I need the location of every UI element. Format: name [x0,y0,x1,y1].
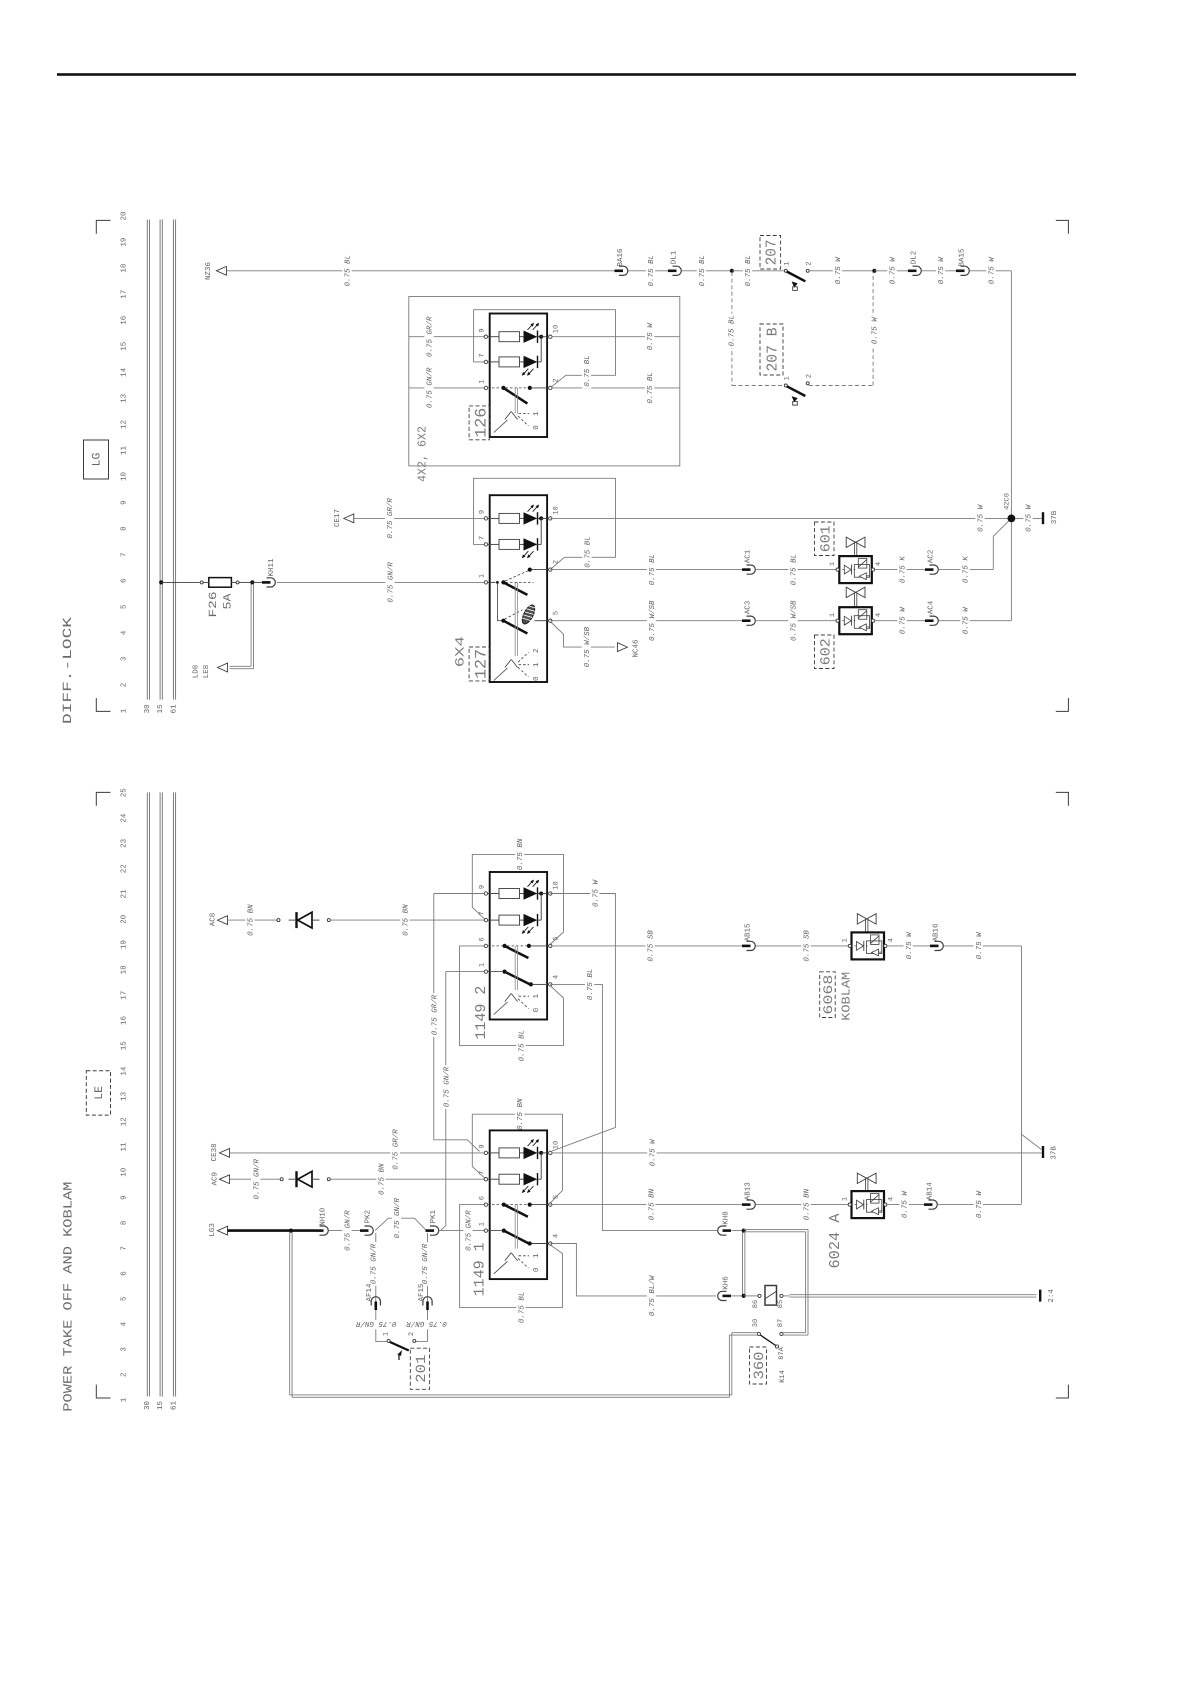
wire AC1 to valve 601 0.75 BL [756,569,837,571]
svg-text:201: 201 [414,1355,430,1383]
svg-text:21: 21 [119,889,128,899]
svg-text:PK2: PK2 [364,1210,373,1224]
svg-text:0.75 W: 0.75 W [905,931,914,960]
wire diode to 1149-1 pin7 0.75 BN [330,1178,486,1180]
block 1149-1 top loop pin7-pin5 0.75 BN [472,1114,562,1203]
switch 201 [387,1339,390,1342]
block 127 housing 6X4 [490,495,547,682]
svg-text:0.75 BN: 0.75 BN [648,1188,657,1220]
svg-text:0.75 BL: 0.75 BL [648,554,657,586]
svg-text:8: 8 [119,1221,128,1226]
svg-text:1: 1 [829,613,837,617]
wire DL1 to node 0.75 BL [682,270,732,272]
svg-text:9: 9 [478,1144,486,1148]
connector AC4 [925,619,934,622]
switch 207 B dashed variant [731,272,733,386]
svg-text:30: 30 [143,704,152,714]
riser diagonal to 37B [1022,1134,1042,1149]
block 126 dashed label box [469,406,489,440]
wire NH10 to PK2 0.75 GN/R [329,1230,361,1232]
svg-text:37B: 37B [1050,1146,1059,1160]
svg-text:61: 61 [169,704,178,714]
svg-text:0.75 BN: 0.75 BN [402,904,411,936]
svg-text:1: 1 [783,376,791,380]
svg-text:0.75 GR/R: 0.75 GR/R [426,316,435,357]
svg-text:0.75 GR/R: 0.75 GR/R [386,498,395,539]
wire 1149-2 pin4 0.75 BL drop [550,984,717,1230]
connector KH8 [723,1229,732,1232]
svg-text:0.75 W/SB: 0.75 W/SB [583,626,592,667]
svg-text:F26: F26 [208,592,220,618]
wire 1149-2 pin5 to AB15 0.75 SB [550,945,742,947]
svg-text:14: 14 [120,1066,128,1076]
svg-text:9: 9 [478,510,486,514]
svg-text:0.75 GN/R: 0.75 GN/R [426,367,435,408]
label box LG [84,440,109,479]
svg-text:0.75 BL: 0.75 BL [728,315,737,347]
svg-text:16: 16 [119,315,128,325]
svg-text:0.75 W: 0.75 W [937,256,946,285]
svg-text:0.75 BL: 0.75 BL [646,372,655,404]
header rule [57,73,1076,76]
svg-text:5A: 5A [222,593,234,609]
wire CE38 to 1149-1 pin9 0.75 GR/R [230,1152,486,1154]
svg-text:10: 10 [552,1141,560,1149]
svg-text:1: 1 [829,562,837,566]
svg-text:0: 0 [532,676,541,681]
block 127 lamp pin7 [499,539,520,549]
block 126 lamp loop pin7 to pin2 [474,310,616,388]
wire CE17 to 127 pin9 0.75 GR/R [354,517,486,519]
svg-text:14: 14 [120,367,128,377]
svg-text:0.75 K: 0.75 K [962,556,971,584]
wire AC9 to diode 0.75 GN/R [230,1178,281,1180]
svg-text:4: 4 [552,1234,560,1238]
connector BA15 [956,269,965,272]
fuse F26 5A [159,580,163,584]
svg-text:0.75 GN/R: 0.75 GN/R [393,1197,402,1238]
svg-text:4: 4 [887,938,895,942]
block 127 dashed label box [469,647,489,681]
wire 127 pin2 to AC1 0.75 BL [550,569,742,571]
svg-text:11: 11 [120,1142,128,1152]
block 1149-1 lamp pin9 [499,1148,520,1158]
svg-text:10: 10 [119,472,128,482]
connector AB15 [742,945,751,948]
branch to NC46 [551,622,615,647]
node after fuse [250,580,254,584]
block 126 pin2 wire 0.75 BL [550,387,680,389]
svg-text:PK1: PK1 [430,1210,438,1224]
wire 127 pin10 to node 42C0 0.75 W [550,517,1011,519]
svg-text:15: 15 [157,704,165,714]
svg-text:19: 19 [119,940,128,949]
svg-text:0.75 W: 0.75 W [962,606,971,635]
svg-text:15: 15 [157,1401,165,1411]
wire 602 to AC4 0.75 W [875,620,925,622]
svg-text:4: 4 [887,1197,895,1201]
wire 127 pin5 to AC3 0.75 W/SB [550,620,742,622]
wire AF15 to switch 201 pin2 [416,1310,428,1341]
svg-text:7: 7 [478,911,486,915]
node 42C0 [1008,515,1016,523]
diode AC9 circuit [280,1178,283,1181]
svg-text:7: 7 [120,552,128,557]
diode AC8 circuit [277,919,280,922]
svg-text:0.75 BN: 0.75 BN [378,1163,387,1195]
wire 1149-2 pin10 0.75 W [550,894,615,1152]
svg-text:9: 9 [119,1195,128,1200]
svg-text:6: 6 [119,1271,128,1276]
wire AB14 to ground riser 0.75 W [938,1204,1022,1206]
node junction 207B right [872,269,876,273]
svg-text:30: 30 [143,1401,152,1411]
connector AC1 [742,568,751,571]
svg-text:126: 126 [472,408,490,438]
svg-text:4: 4 [120,630,128,635]
connector KH11 [252,581,262,583]
block 1149-1 switch row65 [502,1203,506,1207]
wire AB16 to ground riser 0.75 W [944,945,1022,947]
wire DL2-BA15 0.75 W [922,270,957,272]
svg-text:207 B: 207 B [765,328,782,372]
connector arrow NC46 [617,643,627,652]
svg-text:16: 16 [119,1016,128,1026]
svg-text:0.75 W/SB: 0.75 W/SB [648,600,657,641]
block 1149-2 mechanism [514,946,516,990]
svg-text:CE38: CE38 [210,1143,219,1161]
svg-text:61: 61 [169,1401,178,1411]
svg-text:0.75 BL/W: 0.75 BL/W [648,1274,657,1316]
svg-text:0.75 GN/R: 0.75 GN/R [442,1066,451,1107]
wire to LD8 LE8 [250,584,252,666]
wire AC8 to diode 0.75 BN [228,919,278,921]
node junction 207 [730,269,734,273]
svg-text:0.75 BL: 0.75 BL [744,255,753,287]
svg-text:22: 22 [119,864,128,873]
svg-text:0.75 BL: 0.75 BL [698,255,707,287]
svg-text:0.75 BL: 0.75 BL [790,554,799,586]
svg-text:AF15: AF15 [418,1283,426,1302]
block 127 pole drop pin1 to lower contact [496,582,498,620]
svg-text:AF14: AF14 [366,1283,374,1302]
connector AB16 [930,945,939,948]
svg-text:1: 1 [120,708,128,713]
svg-text:5: 5 [120,604,128,609]
svg-text:5: 5 [552,1195,560,1199]
block 1149-1 bottom loop pin6-pin4 0.75 BL [460,1205,563,1308]
svg-text:6: 6 [478,937,486,941]
block 127 cam [520,603,538,626]
svg-text:11: 11 [120,446,128,456]
corner marks section 1 [96,220,110,233]
connector DL2 [908,269,917,272]
svg-text:6068: 6068 [821,975,836,1015]
svg-text:0.75 W: 0.75 W [591,879,600,908]
svg-text:2: 2 [552,378,560,382]
svg-text:AB15: AB15 [745,923,753,942]
svg-text:POWER TAKE OFF AND KOBLAM: POWER TAKE OFF AND KOBLAM [61,1182,75,1412]
wire AC3 to valve 602 0.75 W/SB [756,620,837,622]
svg-text:0.75 BL: 0.75 BL [584,536,593,568]
connector arrow LD8 LE8 [218,663,228,672]
svg-text:0.75 BL: 0.75 BL [586,969,595,1001]
svg-text:0.75 W: 0.75 W [975,1190,984,1219]
connector KH6 [723,1295,732,1298]
svg-text:0.75 GN/R: 0.75 GN/R [387,562,396,603]
ground riser right section2 [1021,946,1023,1204]
svg-text:0.75 W: 0.75 W [977,503,986,532]
svg-text:K14: K14 [779,1370,787,1383]
svg-text:1: 1 [841,938,849,942]
valve 602 [846,587,855,597]
svg-text:NZ36: NZ36 [204,262,213,281]
svg-text:CE17: CE17 [333,509,342,527]
block 126 pins [484,335,487,338]
svg-text:8: 8 [119,526,128,531]
svg-text:AC3: AC3 [744,600,753,614]
svg-text:12: 12 [119,1117,128,1126]
svg-text:207: 207 [764,239,781,265]
svg-text:0.75 W: 0.75 W [901,1190,910,1219]
connector BA16 [615,269,624,272]
wire AF14 to switch 201 pin1 [376,1310,387,1341]
svg-text:9: 9 [119,500,128,505]
svg-text:AC9: AC9 [211,1172,220,1186]
svg-text:0.75 W: 0.75 W [975,931,984,960]
svg-text:0.75 GN/R: 0.75 GN/R [369,1243,378,1284]
block 1149-2 bottom loop pin6-pin4 0.75 BL [460,946,564,1046]
svg-text:0.75 W: 0.75 W [648,1138,657,1167]
svg-text:0.75 BN: 0.75 BN [247,904,256,936]
svg-text:0.75 W/SB: 0.75 W/SB [790,600,799,641]
svg-text:DL2: DL2 [910,251,919,265]
double wire KH8 to relay 87 [744,1228,808,1230]
svg-text:13: 13 [119,393,128,403]
svg-text:13: 13 [119,1091,128,1101]
svg-text:0: 0 [532,1007,541,1012]
svg-text:KOBLAM: KOBLAM [840,972,854,1021]
block 1149-2 pins [484,892,487,895]
svg-text:7: 7 [478,353,486,357]
svg-text:BA16: BA16 [616,248,625,267]
wire 601 to AC2 0.75 K [875,569,925,571]
svg-text:0.75 GN/R: 0.75 GN/R [356,1319,397,1328]
svg-text:0.75 W: 0.75 W [889,256,898,285]
drop PK1 to AF15 0.75 GN/R [427,1233,429,1302]
svg-text:3: 3 [119,1347,128,1352]
svg-text:42C0: 42C0 [1003,493,1011,510]
svg-text:2: 2 [119,1372,128,1377]
svg-text:10: 10 [552,506,560,514]
block 126 pin9 wire 0.75 GR/R [409,336,486,338]
svg-text:127: 127 [472,649,490,679]
svg-text:AB14: AB14 [927,1182,935,1201]
wire 1149-1 pin5 to AB13 0.75 BN [550,1204,742,1206]
svg-text:LG: LG [90,453,103,467]
svg-text:NH10: NH10 [319,1207,328,1226]
svg-text:1: 1 [120,1397,128,1402]
svg-text:AC8: AC8 [209,913,218,927]
svg-text:0.75 GR/R: 0.75 GR/R [392,1129,401,1170]
wire 1149-1 pin4 to KH6 0.75 BL/W [550,1244,716,1296]
svg-text:AB13: AB13 [744,1182,753,1201]
block 127 switch upper contact [501,580,505,584]
svg-text:LE8: LE8 [202,665,211,679]
svg-text:1: 1 [533,1253,541,1258]
riser AC4 row to 42C0 [1010,518,1012,620]
ground 37B section1 [1015,517,1042,519]
svg-text:3: 3 [119,656,128,661]
wire AC4 to riser 0.75 W [939,620,1012,622]
block 127 lamp loop pin7 to pin2 [474,478,616,569]
svg-text:0.75 BN: 0.75 BN [516,1098,525,1130]
connector DL1 [668,269,677,272]
block 1149-2 lamp pin9 [499,889,520,899]
bus rails 30 15 61 section1 [146,220,148,700]
svg-text:DIFF.-LOCK: DIFF.-LOCK [61,616,75,724]
wire 207 pin2 to node 0.75 W [809,270,875,272]
wire PK1 to 1149-1 pin1 0.75 GN/R [439,1230,486,1232]
relay 360 coil [765,1286,777,1306]
svg-text:0.75 BL: 0.75 BL [518,1292,527,1324]
node KH8 [742,1229,746,1233]
riser 1149-2 pin9 to 1149-1 pin9 0.75 GR/R [434,894,480,1152]
svg-text:1: 1 [533,662,541,667]
svg-text:15: 15 [120,341,128,351]
wire BA15 to right riser 0.75 W [970,270,1012,272]
connector AF15 [426,1302,429,1311]
svg-text:0.75 GN/R: 0.75 GN/R [406,1319,447,1328]
block 1149-2 housing [490,872,547,1020]
node KH6 [742,1294,746,1298]
block 127 pins [484,517,487,520]
svg-text:LE: LE [93,1086,106,1100]
wire AC2 riser to 42C0 0.75 K [939,569,994,571]
connector AB14 [924,1203,933,1206]
svg-text:37B: 37B [1050,510,1059,524]
svg-text:0.75 K: 0.75 K [899,556,908,584]
corner marks section 2 [96,792,110,805]
svg-text:0.75 BN: 0.75 BN [516,838,525,870]
svg-text:2: 2 [408,1332,416,1336]
block 126 pin1 wire 0.75 GN/R [409,387,486,389]
wire bump PK2 to PK1 0.75 GN/R [375,1218,426,1230]
svg-text:4X2, 6X2: 4X2, 6X2 [416,426,430,482]
svg-text:DL1: DL1 [671,250,679,264]
block 126 switch contact [501,386,505,390]
block 126 pin10 wire 0.75 W [550,336,680,338]
wire relay 85 to 2:4 [783,1295,789,1297]
svg-text:1: 1 [841,1197,849,1201]
svg-text:10: 10 [119,1167,128,1177]
svg-text:2: 2 [119,683,128,688]
svg-text:2: 2 [532,649,541,654]
svg-text:87: 87 [777,1319,785,1327]
block 1149-1 switch row14 [502,1229,506,1233]
wire LG3 feed thick [228,1229,291,1232]
svg-text:2: 2 [552,560,560,564]
svg-text:0.75 BL: 0.75 BL [647,255,656,287]
svg-text:0: 0 [532,425,541,430]
block 127 switch lower contact [501,619,505,623]
svg-text:9: 9 [478,328,486,332]
svg-text:2: 2 [805,374,813,378]
svg-text:0.75 BN: 0.75 BN [803,1188,812,1220]
svg-text:18: 18 [119,264,128,273]
wire NZ36 to BA16 0.75 BL [226,270,614,272]
svg-text:1: 1 [533,411,541,416]
wire AB13 to valve 6024 0.75 BN [756,1204,849,1206]
valve 6068 KOBLAM [857,914,866,924]
valve 601 [815,522,835,556]
valve 6024 A [857,1173,866,1183]
svg-text:7: 7 [478,536,486,540]
svg-text:20: 20 [119,914,128,924]
svg-text:602: 602 [819,638,835,665]
svg-text:0.75 W: 0.75 W [1025,503,1034,532]
svg-text:6024 A: 6024 A [827,1214,844,1269]
svg-text:1: 1 [382,1332,390,1336]
svg-text:87A: 87A [778,1346,786,1359]
svg-text:1: 1 [783,261,791,265]
connector PK2 [360,1229,369,1232]
svg-text:AC2: AC2 [927,550,936,564]
switch block 126 outer variant box 4X2 6X2 [409,297,680,466]
svg-text:4: 4 [875,613,883,617]
block 1149-1 housing [490,1130,547,1279]
svg-text:0.75 W: 0.75 W [871,316,880,345]
block 126 mechanism [514,388,516,414]
svg-text:0.75 W: 0.75 W [988,256,997,285]
svg-text:1149 1: 1149 1 [472,1242,489,1296]
block 1149-2 top loop pin7-pin5 0.75 BN [472,854,563,944]
terminal 2:4 [1039,1290,1041,1302]
svg-text:12: 12 [119,420,128,429]
svg-text:0.75 BL: 0.75 BL [344,255,353,287]
svg-text:17: 17 [120,991,128,1000]
bus rails 30 15 61 section2 [146,792,148,1396]
svg-text:20: 20 [119,211,128,221]
svg-text:10: 10 [552,325,560,333]
svg-text:1: 1 [533,993,541,998]
svg-text:5: 5 [552,936,560,940]
block 1149-1 mechanism [514,1205,516,1249]
svg-text:4: 4 [552,975,560,979]
switch 207 [760,236,781,270]
block 126 lamp pin9 [499,332,520,342]
block 1149-2 switch row65 [502,944,506,948]
svg-text:KH8: KH8 [722,1211,731,1225]
svg-text:2:4: 2:4 [1047,1289,1056,1303]
svg-text:7: 7 [120,1246,128,1251]
svg-text:360: 360 [752,1352,768,1380]
svg-text:LD8: LD8 [191,665,200,679]
svg-text:6: 6 [119,578,128,583]
svg-text:19: 19 [119,238,128,247]
svg-text:BA15: BA15 [959,248,967,267]
svg-text:1149 2: 1149 2 [473,986,490,1040]
svg-text:86: 86 [752,1300,760,1308]
connector AF14 [374,1302,377,1311]
wire diode to 1149-2 pin7 0.75 BN [330,919,486,921]
svg-text:24: 24 [119,813,128,823]
block 127 lamp pin9 [499,513,520,523]
wire LG3 to relay 30 double [289,1233,291,1395]
svg-text:9: 9 [478,885,486,889]
svg-text:0.75 BL: 0.75 BL [583,355,592,387]
svg-text:NC46: NC46 [631,639,640,658]
